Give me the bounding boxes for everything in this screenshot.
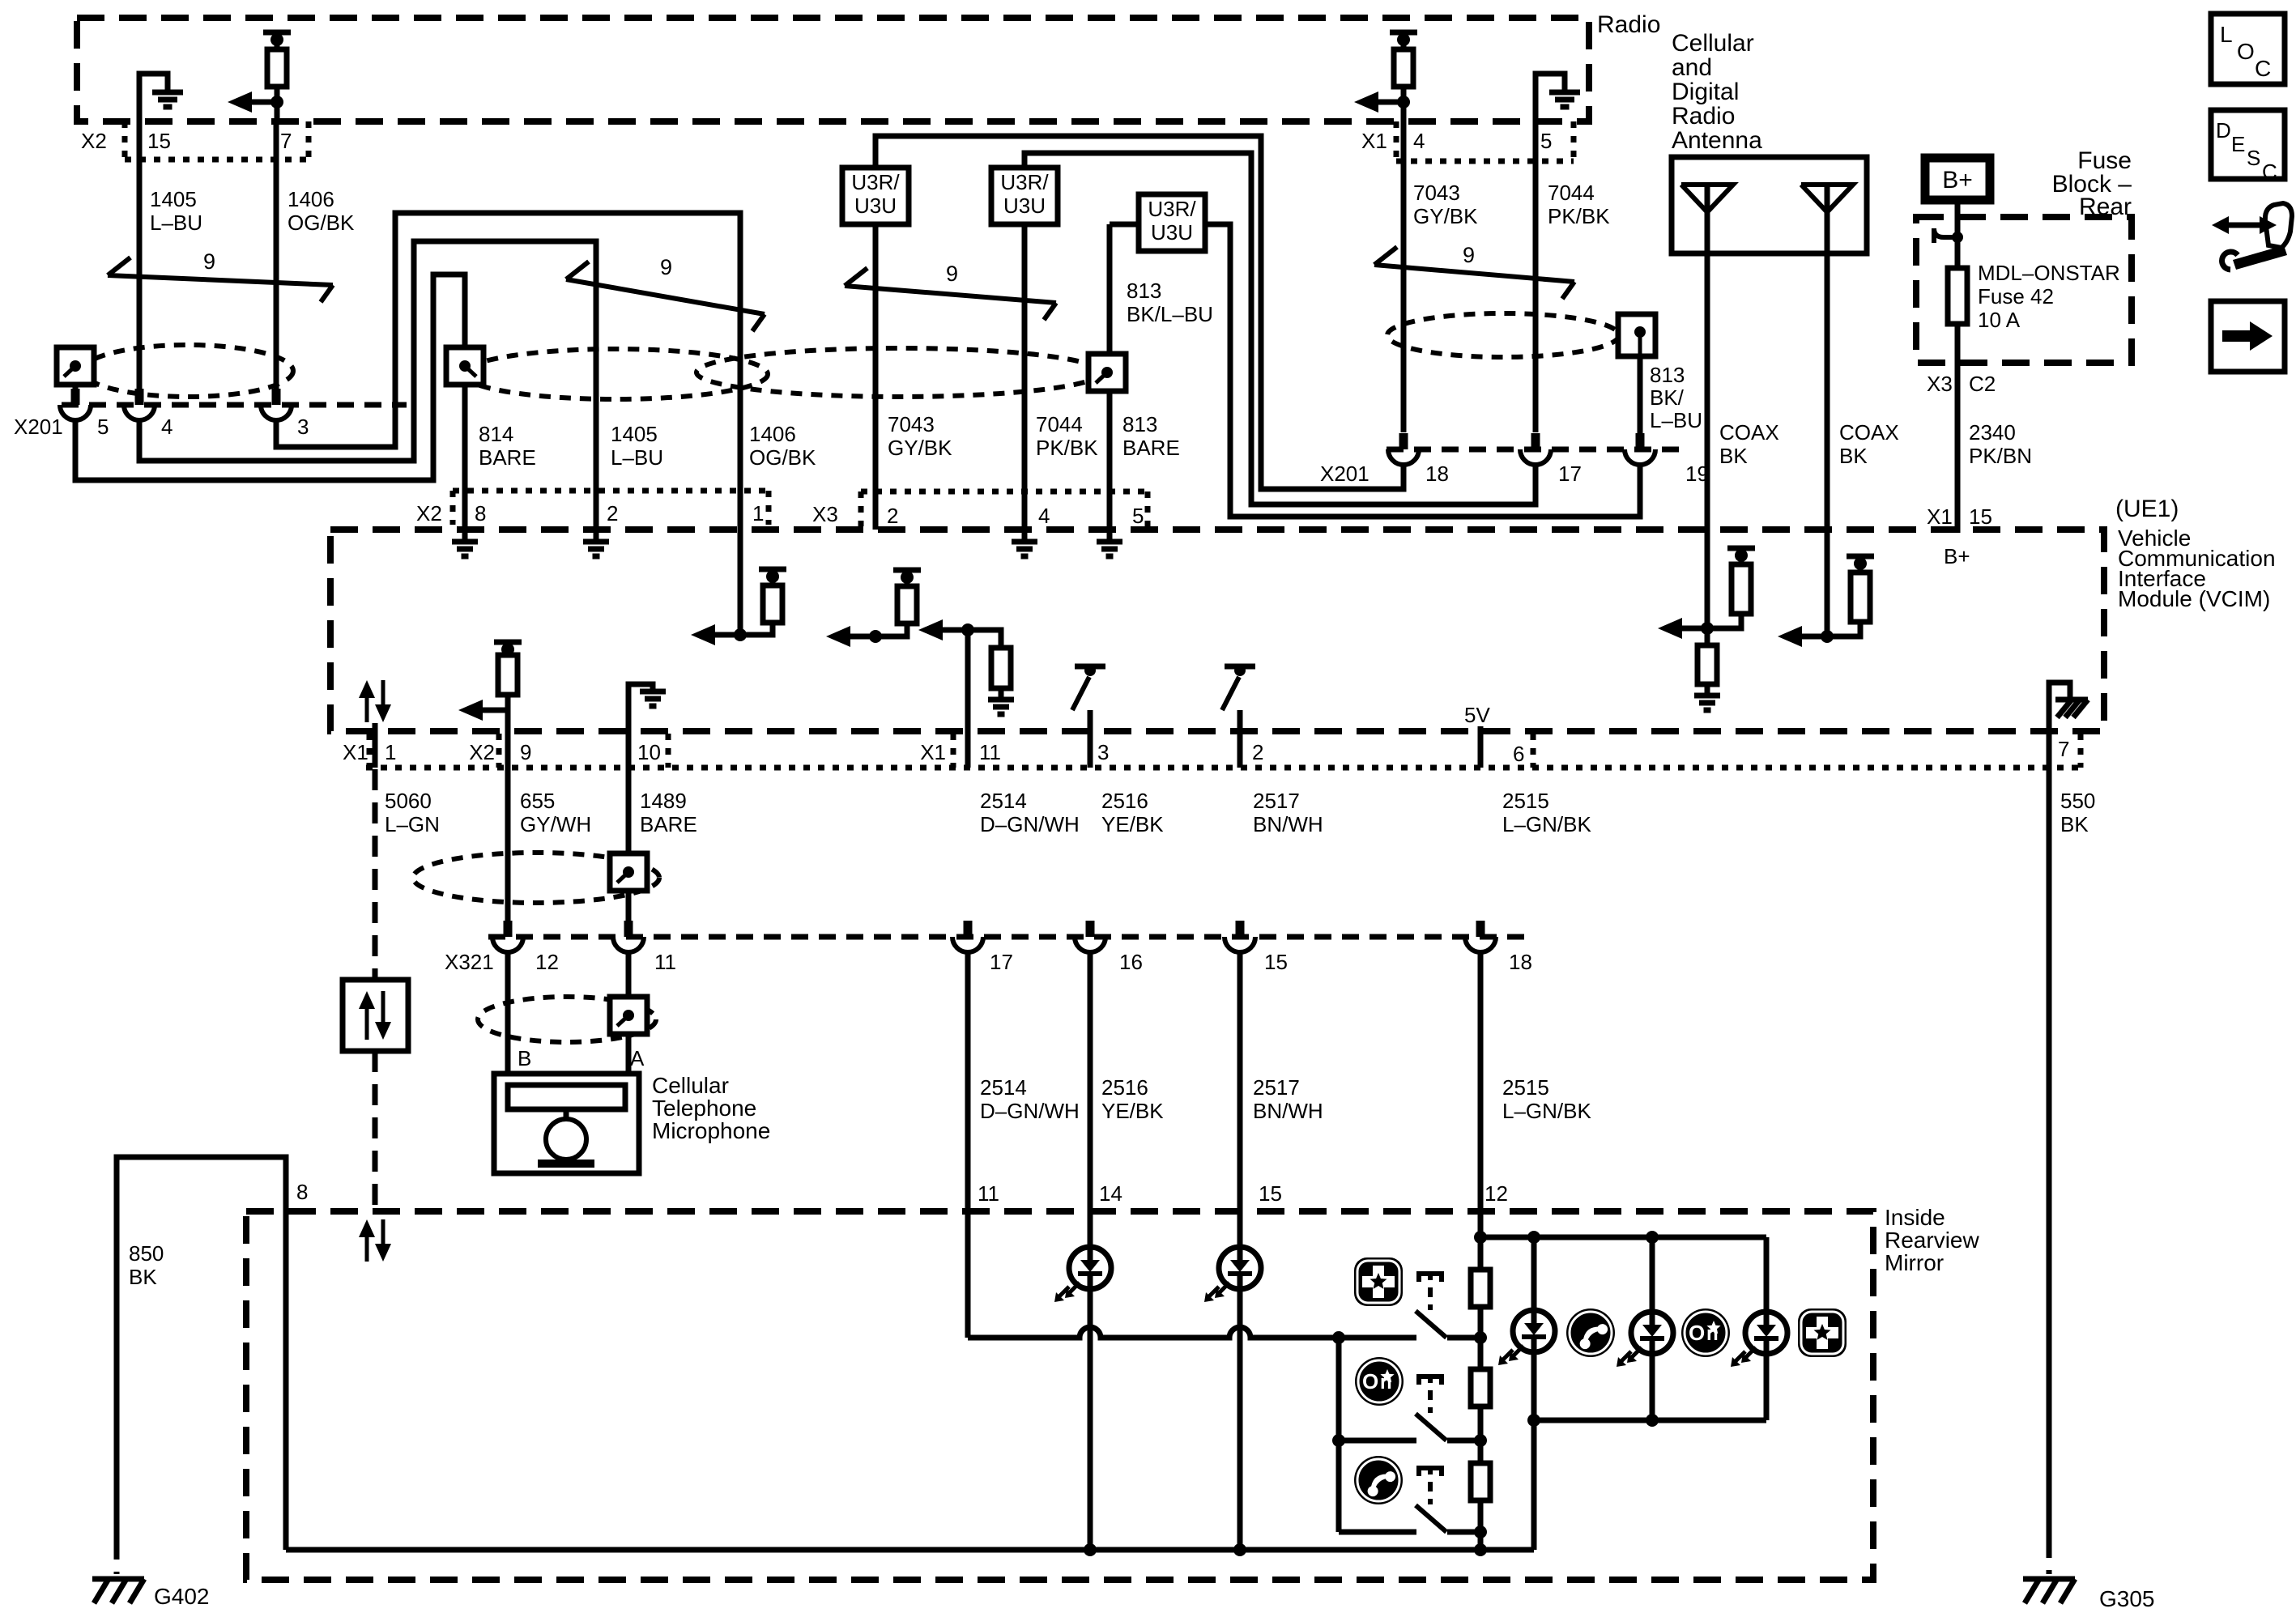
resistor chain R3 bbox=[1478, 1440, 1484, 1463]
svg-text:E: E bbox=[2231, 132, 2245, 156]
svg-text:2514: 2514 bbox=[980, 789, 1027, 813]
svg-text:L–BU: L–BU bbox=[1650, 408, 1702, 432]
wire 2516 to mirror pin 14 bbox=[1088, 952, 1093, 1211]
chassis ground for 550 BK inside VCIM bbox=[2049, 683, 2070, 731]
svg-text:Module (VCIM): Module (VCIM) bbox=[2118, 586, 2270, 611]
B+ power feed box bbox=[1925, 158, 1990, 200]
svg-text:11: 11 bbox=[978, 1181, 999, 1206]
svg-text:Radio: Radio bbox=[1672, 103, 1735, 130]
svg-text:15: 15 bbox=[1259, 1181, 1282, 1206]
svg-text:X1: X1 bbox=[343, 740, 368, 764]
svg-text:3: 3 bbox=[1097, 740, 1109, 764]
wire radio X1-4 down to X201-18 bbox=[1401, 121, 1407, 432]
connector X2 of VCIM (pins 8,2,1) bbox=[453, 488, 769, 494]
svg-text:5: 5 bbox=[1540, 129, 1552, 153]
svg-text:15: 15 bbox=[1264, 950, 1288, 974]
OnStar button icon (switch 2) bbox=[1355, 1357, 1404, 1406]
X321 pin 11 terminal bbox=[624, 921, 633, 937]
svg-text:Microphone: Microphone bbox=[652, 1118, 770, 1143]
svg-text:COAX: COAX bbox=[1719, 420, 1779, 445]
wire 7044 PK/BK from X201-17 to VCIM X3-4 bbox=[1024, 153, 1536, 504]
svg-text:X3: X3 bbox=[1927, 372, 1953, 396]
svg-text:PK/BN: PK/BN bbox=[1969, 444, 2032, 468]
LED C bbox=[1764, 1237, 1770, 1420]
resistor chain R2 bbox=[1478, 1338, 1484, 1369]
svg-text:1406: 1406 bbox=[749, 422, 796, 446]
svg-text:Cellular: Cellular bbox=[652, 1073, 729, 1098]
svg-text:16: 16 bbox=[1119, 950, 1143, 974]
resistor to ground below left COAX bbox=[1698, 645, 1717, 684]
svg-text:X1: X1 bbox=[1927, 504, 1953, 529]
coax wire left antenna to VCIM bbox=[1705, 253, 1710, 628]
OnStar indicator icon (right bank) bbox=[1681, 1308, 1730, 1357]
svg-text:Inside: Inside bbox=[1885, 1205, 1945, 1230]
svg-text:B: B bbox=[518, 1046, 531, 1070]
svg-text:17: 17 bbox=[990, 950, 1013, 974]
svg-text:C2: C2 bbox=[1969, 372, 1996, 396]
svg-text:COAX: COAX bbox=[1839, 420, 1899, 445]
svg-text:PK/BK: PK/BK bbox=[1548, 204, 1610, 228]
wire radio X2 pin 15 down to X201-4 bbox=[137, 121, 143, 389]
twisted-pair reference 9 (7043/7044 pair) bbox=[845, 286, 1056, 303]
svg-text:7043: 7043 bbox=[1413, 181, 1460, 205]
option box U3R/U3U (7044) bbox=[991, 168, 1058, 224]
svg-text:BK/: BK/ bbox=[1650, 385, 1685, 410]
svg-text:L: L bbox=[2220, 22, 2233, 47]
go-to arrow icon box bbox=[2211, 301, 2285, 372]
antenna element left bbox=[1681, 185, 1733, 212]
wire 814 BARE from X201-5 to VCIM X2-8 bbox=[75, 274, 465, 530]
wire fuse to VCIM X1-15 bbox=[1955, 324, 1961, 533]
svg-text:G402: G402 bbox=[154, 1584, 210, 1609]
svg-text:813: 813 bbox=[1127, 279, 1161, 303]
svg-text:9: 9 bbox=[203, 249, 215, 274]
svg-text:8: 8 bbox=[475, 501, 486, 526]
connector X201 right dashed line bbox=[1387, 447, 1685, 453]
ground G402 bbox=[92, 1577, 144, 1582]
ground at VCIM X2-8 bbox=[462, 530, 468, 540]
wire 1406 OG/BK from X201-3 to VCIM X2-1 bbox=[276, 213, 740, 530]
svg-text:BARE: BARE bbox=[640, 812, 697, 836]
coax wire right antenna to VCIM bbox=[1825, 253, 1830, 636]
resistor with supply bar inside Radio (X1-4 wire) bbox=[1390, 30, 1417, 36]
svg-text:L–GN: L–GN bbox=[385, 812, 440, 836]
wire 2514 to mirror pin 11 bbox=[965, 952, 971, 1211]
svg-text:O: O bbox=[1689, 1321, 1705, 1345]
svg-text:2517: 2517 bbox=[1253, 1075, 1300, 1100]
svg-text:MDL–ONSTAR: MDL–ONSTAR bbox=[1978, 261, 2120, 285]
ground G305 bbox=[2023, 1577, 2075, 1582]
svg-text:BN/WH: BN/WH bbox=[1253, 1099, 1323, 1123]
twisted-pair reference 9 (radio left pair) bbox=[108, 275, 333, 285]
ground at VCIM X2-10 (1489) bbox=[628, 684, 653, 768]
svg-text:1405: 1405 bbox=[611, 422, 658, 446]
svg-text:GY/WH: GY/WH bbox=[520, 812, 591, 836]
svg-text:9: 9 bbox=[946, 262, 958, 286]
svg-text:8: 8 bbox=[296, 1180, 308, 1204]
svg-text:2340: 2340 bbox=[1969, 420, 2016, 445]
wire 2514 into mirror with crossover hops bbox=[965, 1211, 971, 1338]
ground at VCIM X3-5 bbox=[1107, 530, 1113, 540]
svg-text:Rearview: Rearview bbox=[1885, 1228, 1979, 1253]
svg-text:Digital: Digital bbox=[1672, 79, 1739, 105]
wire 655 to microphone B bbox=[505, 952, 511, 1074]
button switch row 1 (blade) bbox=[1419, 1274, 1442, 1282]
svg-text:10 A: 10 A bbox=[1978, 308, 2021, 332]
wire 7043 GY/BK from X201-18 to VCIM X3-2 bbox=[875, 136, 1404, 489]
svg-text:Cellular: Cellular bbox=[1672, 30, 1754, 57]
svg-text:15: 15 bbox=[1969, 504, 1992, 529]
svg-text:2514: 2514 bbox=[980, 1075, 1027, 1100]
svg-text:BK: BK bbox=[1719, 444, 1748, 468]
ground inside Radio (left) bbox=[139, 74, 168, 121]
svg-text:4: 4 bbox=[1038, 504, 1050, 528]
svg-text:7: 7 bbox=[280, 129, 292, 153]
svg-text:(UE1): (UE1) bbox=[2115, 496, 2179, 522]
Fuse Block - Rear dashed box bbox=[1916, 217, 2132, 363]
svg-text:X201: X201 bbox=[14, 415, 63, 439]
svg-text:D: D bbox=[2216, 118, 2231, 143]
arrow into module (radio X1-4) bbox=[1364, 100, 1404, 105]
svg-text:U3U: U3U bbox=[854, 194, 897, 218]
svg-text:B+: B+ bbox=[1944, 544, 1970, 568]
double-arrow hand tool icon bbox=[2221, 223, 2268, 228]
wire radio X1-5 down to X201-17 bbox=[1533, 121, 1539, 432]
svg-text:2515: 2515 bbox=[1502, 789, 1549, 813]
shield drain box on 1489 BARE (lower) bbox=[610, 997, 647, 1034]
arrow and resistor to ground at VCIM X1-11 (2514) bbox=[961, 623, 974, 636]
svg-text:11: 11 bbox=[654, 950, 676, 974]
DESC icon box bbox=[2211, 110, 2285, 179]
svg-text:1405: 1405 bbox=[150, 187, 197, 211]
connector X3 of VCIM (pins 2,4,5) bbox=[861, 489, 1148, 495]
Radio module dashed box bbox=[77, 18, 1589, 121]
wire 2517 to mirror pin 15 bbox=[1237, 952, 1243, 1211]
svg-text:PK/BK: PK/BK bbox=[1036, 436, 1098, 460]
shield ellipse around 1405/1406 at X201 bbox=[83, 345, 293, 397]
arrow into module (radio pin 7) bbox=[237, 100, 277, 105]
svg-text:Mirror: Mirror bbox=[1885, 1250, 1944, 1275]
svg-text:813: 813 bbox=[1122, 412, 1157, 436]
X321 pin 16 terminal bbox=[1086, 921, 1095, 937]
svg-text:Antenna: Antenna bbox=[1672, 127, 1762, 154]
Vehicle Communication Interface Module dashed box bbox=[330, 530, 2104, 731]
svg-text:GY/BK: GY/BK bbox=[888, 436, 952, 460]
svg-text:D–GN/WH: D–GN/WH bbox=[980, 812, 1080, 836]
svg-text:1: 1 bbox=[752, 501, 764, 526]
svg-text:X321: X321 bbox=[445, 950, 494, 974]
svg-text:7043: 7043 bbox=[888, 412, 935, 436]
svg-text:813: 813 bbox=[1650, 363, 1685, 387]
phone button icon (switch 3) bbox=[1354, 1456, 1403, 1504]
svg-text:850: 850 bbox=[129, 1241, 164, 1266]
LED on 2517 wire bbox=[1237, 1211, 1243, 1550]
shield drain termination box on 814 BARE bbox=[446, 347, 483, 385]
option box U3R/U3U (813) bbox=[1139, 194, 1205, 251]
svg-text:X201: X201 bbox=[1320, 462, 1370, 486]
wire 655 GY/WH to X321-12 bbox=[505, 768, 511, 921]
switch at VCIM X1-3 (2516) bbox=[1075, 664, 1105, 670]
svg-text:L–BU: L–BU bbox=[611, 445, 663, 470]
svg-text:O: O bbox=[1362, 1369, 1378, 1394]
resistor with supply bar inside Radio (pin 7 wire) bbox=[263, 30, 291, 36]
svg-text:10: 10 bbox=[637, 740, 661, 764]
connector line X1/X2 at VCIM bottom bbox=[366, 765, 2081, 771]
svg-text:2: 2 bbox=[887, 504, 898, 528]
svg-text:Fuse 42: Fuse 42 bbox=[1978, 284, 2054, 309]
shield drain termination box on 813 BARE bbox=[1088, 354, 1126, 391]
svg-text:GY/BK: GY/BK bbox=[1413, 204, 1478, 228]
svg-text:1489: 1489 bbox=[640, 789, 687, 813]
connector X1 of Radio bbox=[1394, 121, 1399, 161]
svg-text:9: 9 bbox=[1463, 243, 1475, 267]
LED return rail bbox=[1534, 1418, 1766, 1423]
svg-text:5V: 5V bbox=[1464, 703, 1490, 727]
svg-text:5060: 5060 bbox=[385, 789, 432, 813]
pull-up resistor and arrow at VCIM X2-1 (1406) bbox=[738, 530, 743, 635]
emergency cross button icon (switch 1) bbox=[1354, 1257, 1403, 1306]
svg-text:14: 14 bbox=[1099, 1181, 1122, 1206]
X321 pin 17 terminal bbox=[964, 921, 973, 937]
pull-up and arrow at right COAX input bbox=[1821, 630, 1834, 643]
svg-text:2515: 2515 bbox=[1502, 1075, 1549, 1100]
svg-text:4: 4 bbox=[1413, 129, 1425, 153]
shield ellipse around mic pair (upper) bbox=[413, 853, 659, 903]
ground inside Radio (right) bbox=[1536, 74, 1565, 121]
connector X321 dashed line bbox=[488, 934, 1531, 940]
svg-text:OG/BK: OG/BK bbox=[749, 445, 816, 470]
svg-text:X1: X1 bbox=[920, 740, 946, 764]
pull-up resistor and arrow at VCIM X3-2 (7043) bbox=[869, 630, 882, 643]
X201 pin 3 terminal bbox=[272, 389, 281, 405]
svg-text:7044: 7044 bbox=[1036, 412, 1083, 436]
svg-text:U3U: U3U bbox=[1003, 194, 1046, 218]
svg-text:X2: X2 bbox=[81, 129, 107, 153]
svg-text:550: 550 bbox=[2060, 789, 2095, 813]
ground at VCIM X3-4 bbox=[1022, 530, 1028, 540]
svg-text:2: 2 bbox=[607, 501, 618, 526]
svg-text:9: 9 bbox=[660, 255, 672, 279]
wire B+ into fuse bbox=[1955, 200, 1961, 268]
switch at VCIM X1-2 (2517) bbox=[1225, 664, 1255, 670]
svg-text:U3R/: U3R/ bbox=[1000, 170, 1049, 194]
svg-text:BK: BK bbox=[2060, 812, 2089, 836]
ground at VCIM X2-2 bbox=[594, 530, 599, 540]
svg-text:12: 12 bbox=[1485, 1181, 1508, 1206]
shield drain box on 1489 BARE (upper) bbox=[610, 853, 647, 891]
svg-text:BK/L–BU: BK/L–BU bbox=[1127, 302, 1213, 326]
svg-text:7044: 7044 bbox=[1548, 181, 1595, 205]
LED B bbox=[1650, 1237, 1655, 1420]
svg-text:U3R/: U3R/ bbox=[851, 170, 900, 194]
svg-text:D–GN/WH: D–GN/WH bbox=[980, 1099, 1080, 1123]
X201 pin 19 terminal bbox=[1636, 433, 1645, 449]
svg-text:18: 18 bbox=[1509, 950, 1532, 974]
wire 2515 to mirror pin 12 bbox=[1478, 952, 1484, 1211]
wire 2515 into mirror bbox=[1478, 1211, 1484, 1237]
antenna element right bbox=[1801, 185, 1853, 212]
svg-text:6: 6 bbox=[1513, 742, 1524, 766]
Cellular Telephone Microphone box bbox=[494, 1074, 639, 1173]
dashed data wire 5060 below VCIM bbox=[373, 769, 378, 980]
svg-text:L–GN/BK: L–GN/BK bbox=[1502, 1099, 1591, 1123]
svg-text:X2: X2 bbox=[416, 501, 442, 526]
connector X2 of Radio bbox=[122, 121, 128, 160]
LED on 2516 wire bbox=[1088, 1211, 1093, 1550]
svg-text:18: 18 bbox=[1425, 462, 1449, 486]
svg-text:11: 11 bbox=[979, 740, 1001, 764]
svg-text:1406: 1406 bbox=[288, 187, 334, 211]
svg-text:YE/BK: YE/BK bbox=[1101, 812, 1164, 836]
emergency cross indicator icon (right bank) bbox=[1798, 1308, 1847, 1357]
svg-text:2516: 2516 bbox=[1101, 1075, 1148, 1100]
svg-text:5: 5 bbox=[97, 415, 109, 439]
svg-text:OG/BK: OG/BK bbox=[288, 211, 355, 235]
svg-text:2517: 2517 bbox=[1253, 789, 1300, 813]
svg-text:3: 3 bbox=[297, 415, 309, 439]
shield drain termination box (X201 pin 5) bbox=[57, 347, 94, 385]
resistor and arrow at VCIM X2-9 (655) bbox=[494, 640, 522, 645]
LED feed rail top bbox=[1480, 1235, 1766, 1240]
dashed data wire 5060 to mirror bbox=[373, 1051, 378, 1211]
boxed bidirectional arrows on 5060 bbox=[343, 980, 408, 1051]
svg-text:B+: B+ bbox=[1942, 167, 1973, 194]
connector X201 left dashed line bbox=[62, 402, 407, 408]
bidirectional arrows at VCIM X1-1 (5060) bbox=[365, 693, 369, 722]
X321 pin 18 terminal bbox=[1476, 921, 1485, 937]
wire radio X2 pin 7 down to X201-3 bbox=[274, 121, 279, 389]
X321 pin 12 terminal bbox=[504, 921, 513, 937]
svg-text:X2: X2 bbox=[469, 740, 495, 764]
svg-text:17: 17 bbox=[1558, 462, 1582, 486]
antenna module box bbox=[1672, 157, 1867, 253]
svg-text:15: 15 bbox=[147, 129, 171, 153]
svg-text:BK: BK bbox=[129, 1265, 157, 1289]
X321 pin 15 terminal bbox=[1236, 921, 1245, 937]
shield ellipse around 7043/7044 bbox=[696, 348, 1101, 397]
LOC icon box bbox=[2211, 14, 2285, 84]
wire 1489 BARE to X321-11 bbox=[626, 768, 632, 921]
svg-text:C: C bbox=[2262, 160, 2277, 184]
svg-text:12: 12 bbox=[535, 950, 559, 974]
option box U3R/U3U (7043) bbox=[842, 168, 909, 224]
svg-text:A: A bbox=[630, 1046, 645, 1070]
svg-text:S: S bbox=[2247, 146, 2260, 170]
wire 850 BK from mirror pin 8 to G402 bbox=[117, 1157, 286, 1550]
X201 pin 17 terminal bbox=[1531, 433, 1540, 449]
button switch row 2 bbox=[1339, 1438, 1416, 1444]
fuse tap symbol bbox=[1952, 232, 1963, 243]
shield ellipse around 1405/1406 at VCIM side bbox=[463, 349, 768, 399]
svg-text:C: C bbox=[2255, 56, 2271, 81]
fuse MDL-ONSTAR Fuse 42 10A bbox=[1948, 268, 1967, 324]
svg-text:814: 814 bbox=[479, 422, 513, 446]
svg-text:4: 4 bbox=[161, 415, 173, 439]
svg-text:2516: 2516 bbox=[1101, 789, 1148, 813]
wire 1489 to microphone A bbox=[626, 952, 632, 1074]
left column to lower switches bbox=[1336, 1338, 1342, 1532]
svg-text:YE/BK: YE/BK bbox=[1101, 1099, 1164, 1123]
svg-text:BARE: BARE bbox=[479, 445, 536, 470]
bidirectional arrows inside mirror (5060) bbox=[365, 1232, 369, 1262]
shield ellipse around mic pair (lower) bbox=[478, 997, 656, 1042]
shield ellipse around 7043/7044 at X201 right bbox=[1387, 313, 1619, 357]
svg-text:X3: X3 bbox=[812, 502, 838, 526]
svg-text:O: O bbox=[2237, 39, 2255, 64]
svg-text:BN/WH: BN/WH bbox=[1253, 812, 1323, 836]
wire 813 BK/L-BU from X201-19 through option box to VCIM X3-5 bbox=[1205, 224, 1640, 517]
LED A with ground drop bbox=[1531, 1237, 1537, 1550]
twisted-pair reference 9 (1405/1406 pair) bbox=[566, 279, 765, 314]
svg-text:U3U: U3U bbox=[1151, 220, 1193, 245]
button switch row 3 bbox=[1339, 1530, 1416, 1535]
wire 1405 L-BU from X201-4 to VCIM X2-2 bbox=[139, 241, 596, 530]
svg-text:655: 655 bbox=[520, 789, 555, 813]
svg-text:Telephone: Telephone bbox=[652, 1096, 756, 1121]
twisted-pair reference 9 (radio right pair) bbox=[1374, 265, 1574, 282]
svg-text:1: 1 bbox=[385, 740, 396, 764]
wire 550 BK from VCIM X1-7 to G305 bbox=[2047, 731, 2052, 1537]
svg-text:BARE: BARE bbox=[1122, 436, 1180, 460]
svg-text:U3R/: U3R/ bbox=[1148, 197, 1196, 221]
svg-text:BK: BK bbox=[1839, 444, 1868, 468]
resistor chain R1 bbox=[1478, 1237, 1484, 1270]
Inside Rearview Mirror dashed box bbox=[246, 1211, 1873, 1580]
phone indicator icon (right bank) bbox=[1566, 1308, 1615, 1357]
ground bus inside mirror bbox=[286, 1547, 1534, 1553]
svg-text:L–GN/BK: L–GN/BK bbox=[1502, 812, 1591, 836]
shield drain termination box (X201-19) bbox=[1618, 314, 1655, 356]
svg-text:L–BU: L–BU bbox=[150, 211, 202, 235]
X201 pin 5 terminal bbox=[71, 389, 80, 405]
pull-up and arrow at left COAX input bbox=[1705, 628, 1710, 645]
svg-text:G305: G305 bbox=[2099, 1586, 2155, 1611]
X201 pin 4 terminal bbox=[135, 389, 144, 405]
X201 pin 18 terminal bbox=[1399, 433, 1408, 449]
svg-text:Radio: Radio bbox=[1597, 11, 1660, 38]
svg-text:9: 9 bbox=[520, 740, 531, 764]
svg-text:5: 5 bbox=[1132, 504, 1144, 528]
svg-text:and: and bbox=[1672, 54, 1712, 81]
svg-text:7: 7 bbox=[2058, 737, 2069, 761]
svg-text:X1: X1 bbox=[1361, 129, 1387, 153]
svg-text:2: 2 bbox=[1252, 740, 1263, 764]
